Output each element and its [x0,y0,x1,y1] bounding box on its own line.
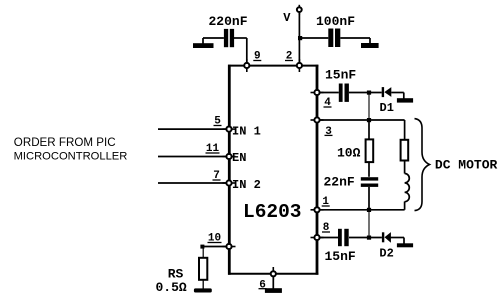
svg-text:MICROCONTROLLER: MICROCONTROLLER [14,151,128,163]
svg-text:L6203: L6203 [243,201,302,223]
svg-text:EN: EN [232,151,246,165]
svg-text:22nF: 22nF [324,175,355,190]
svg-text:6: 6 [259,280,266,292]
svg-text:10Ω: 10Ω [337,146,361,161]
svg-text:100nF: 100nF [316,14,355,29]
svg-text:IN 1: IN 1 [232,125,261,139]
svg-text:15nF: 15nF [325,249,356,264]
svg-text:3: 3 [325,126,332,138]
svg-text:D2: D2 [379,247,393,261]
svg-text:V: V [283,11,291,25]
svg-text:0.5Ω: 0.5Ω [156,280,187,295]
svg-text:D1: D1 [380,101,394,115]
svg-text:ORDER FROM PIC: ORDER FROM PIC [14,136,116,149]
svg-text:DC MOTOR: DC MOTOR [435,158,498,173]
svg-text:220nF: 220nF [209,14,248,29]
svg-text:IN 2: IN 2 [232,178,261,192]
svg-text:15nF: 15nF [325,68,356,83]
